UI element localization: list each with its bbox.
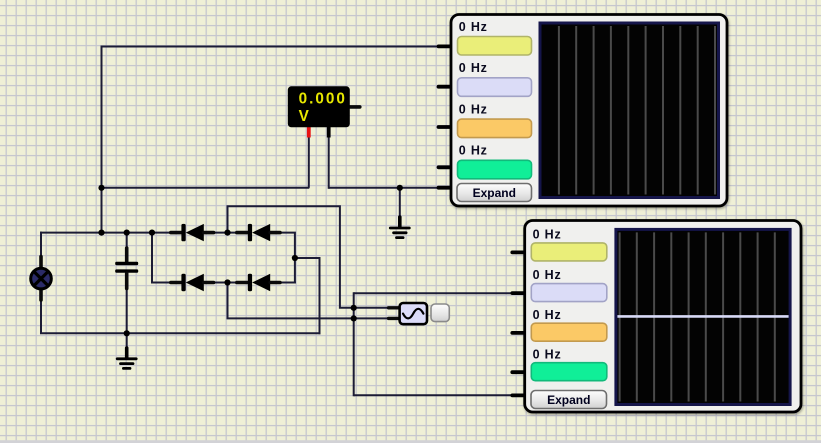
scope1 ch3 bar	[458, 119, 532, 138]
wire black probe drop	[328, 134, 330, 189]
scope2 pin 1 (ch A)	[512, 250, 525, 254]
diode D3	[171, 274, 214, 291]
scope1 pin 5 (trigger)	[439, 186, 453, 190]
node junction left vertical / top row	[98, 230, 104, 236]
wire AC source top lead	[40, 232, 42, 258]
wire red probe drop	[308, 134, 310, 188]
scope1 ch1 bar	[458, 37, 532, 56]
node junction top diodes mid-tap	[224, 230, 230, 236]
wire	[101, 46, 103, 233]
wire left bridge link	[151, 232, 153, 284]
oscilloscope XSC2 (bottom right)	[512, 221, 801, 413]
wire top bridge row left	[40, 232, 172, 234]
scope2 Expand button	[531, 391, 607, 409]
wire top row right	[280, 233, 295, 284]
diode D2	[237, 224, 280, 241]
scope1 screen	[539, 22, 721, 200]
wire ground stub below rail	[126, 333, 128, 349]
node junction ground / black probe	[397, 185, 403, 191]
svg-text:0 Hz: 0 Hz	[459, 20, 488, 34]
scope1 pin 1 (ch A)	[439, 45, 453, 49]
scope1 pin 3 (ch C)	[439, 125, 453, 129]
scope2 pin 3 (ch C)	[512, 331, 525, 335]
svg-text:0 Hz: 0 Hz	[459, 144, 488, 158]
node junction filter input 1	[351, 305, 357, 311]
low-pass filter block U1	[389, 303, 428, 324]
scope2 pin 5 (trigger)	[512, 393, 525, 397]
capacitor C1	[115, 248, 138, 289]
svg-text:Expand: Expand	[547, 393, 590, 407]
ground (at voltmeter black probe node)	[390, 217, 409, 238]
svg-text:0 Hz: 0 Hz	[533, 268, 562, 282]
AC source V1	[31, 257, 52, 301]
wire black probe to scope pin	[329, 187, 440, 189]
scope2 ch1 bar	[531, 243, 607, 261]
node junction capacitor top	[124, 230, 130, 236]
wire AC source bottom lead	[40, 299, 42, 333]
svg-text:0 Hz: 0 Hz	[533, 347, 562, 361]
wire capacitor top lead	[126, 232, 128, 249]
svg-text:0.000: 0.000	[299, 91, 347, 108]
wire filter bus vertical	[353, 292, 355, 396]
diode D1	[171, 224, 214, 241]
scope2 body	[525, 221, 801, 413]
scope2 channel B flat trace	[617, 315, 788, 318]
scope2 screen	[614, 228, 791, 406]
scope2 ch2 bar	[531, 284, 607, 302]
wire right node branch down	[295, 258, 320, 334]
wire between top diodes	[213, 232, 239, 234]
wire top net: left vertical to top scope ch1	[102, 46, 440, 48]
svg-text:0 Hz: 0 Hz	[459, 61, 488, 75]
node junction bottom diodes mid-tap	[224, 279, 230, 285]
wire capacitor bottom lead	[126, 288, 128, 333]
voltmeter display (0.000 V)	[288, 86, 360, 137]
scope1 body	[451, 15, 727, 207]
svg-text:V: V	[299, 108, 310, 125]
wire top mid-tap loop to filter input	[228, 206, 390, 307]
wire to bottom scope ch2 pin	[354, 292, 514, 294]
diode D4	[237, 274, 280, 291]
wire bottom row left	[151, 282, 172, 284]
svg-text:0 Hz: 0 Hz	[533, 308, 562, 322]
wire ground stub at node	[399, 188, 401, 218]
scope2 pin 4 (ch D)	[512, 370, 525, 374]
scope2 pin 2 (ch B)	[512, 291, 525, 295]
node junction bridge right	[292, 255, 298, 261]
node junction left vertical / probe net	[98, 185, 104, 191]
scope1 Expand button	[457, 184, 532, 202]
wire bottom row right	[280, 282, 296, 284]
small gray button next to filter	[431, 304, 449, 322]
wire bottom mid-tap to filter input	[228, 282, 390, 319]
scope1 ch2 bar	[458, 78, 532, 97]
wire voltmeter red probe net	[102, 187, 310, 189]
svg-text:0 Hz: 0 Hz	[533, 227, 562, 241]
wire bottom long rail	[40, 332, 321, 334]
wire between bottom diodes	[213, 282, 239, 284]
oscilloscope XSC1 (top right)	[439, 15, 728, 207]
ground (below capacitor)	[117, 348, 136, 368]
node junction filter input 2	[351, 315, 357, 321]
svg-text:Expand: Expand	[473, 186, 516, 200]
node junction capacitor bottom / ground	[124, 330, 130, 336]
scope1 ch4 bar	[458, 160, 532, 179]
svg-text:0 Hz: 0 Hz	[459, 102, 488, 116]
scope2 ch3 bar	[531, 323, 607, 341]
wire to bottom scope expand pin	[354, 394, 514, 396]
scope1 pin 4 (ch D)	[439, 165, 453, 169]
scope1 pin 2 (ch B)	[439, 85, 453, 89]
scope2 ch4 bar	[531, 363, 607, 381]
node junction bridge left	[149, 230, 155, 236]
